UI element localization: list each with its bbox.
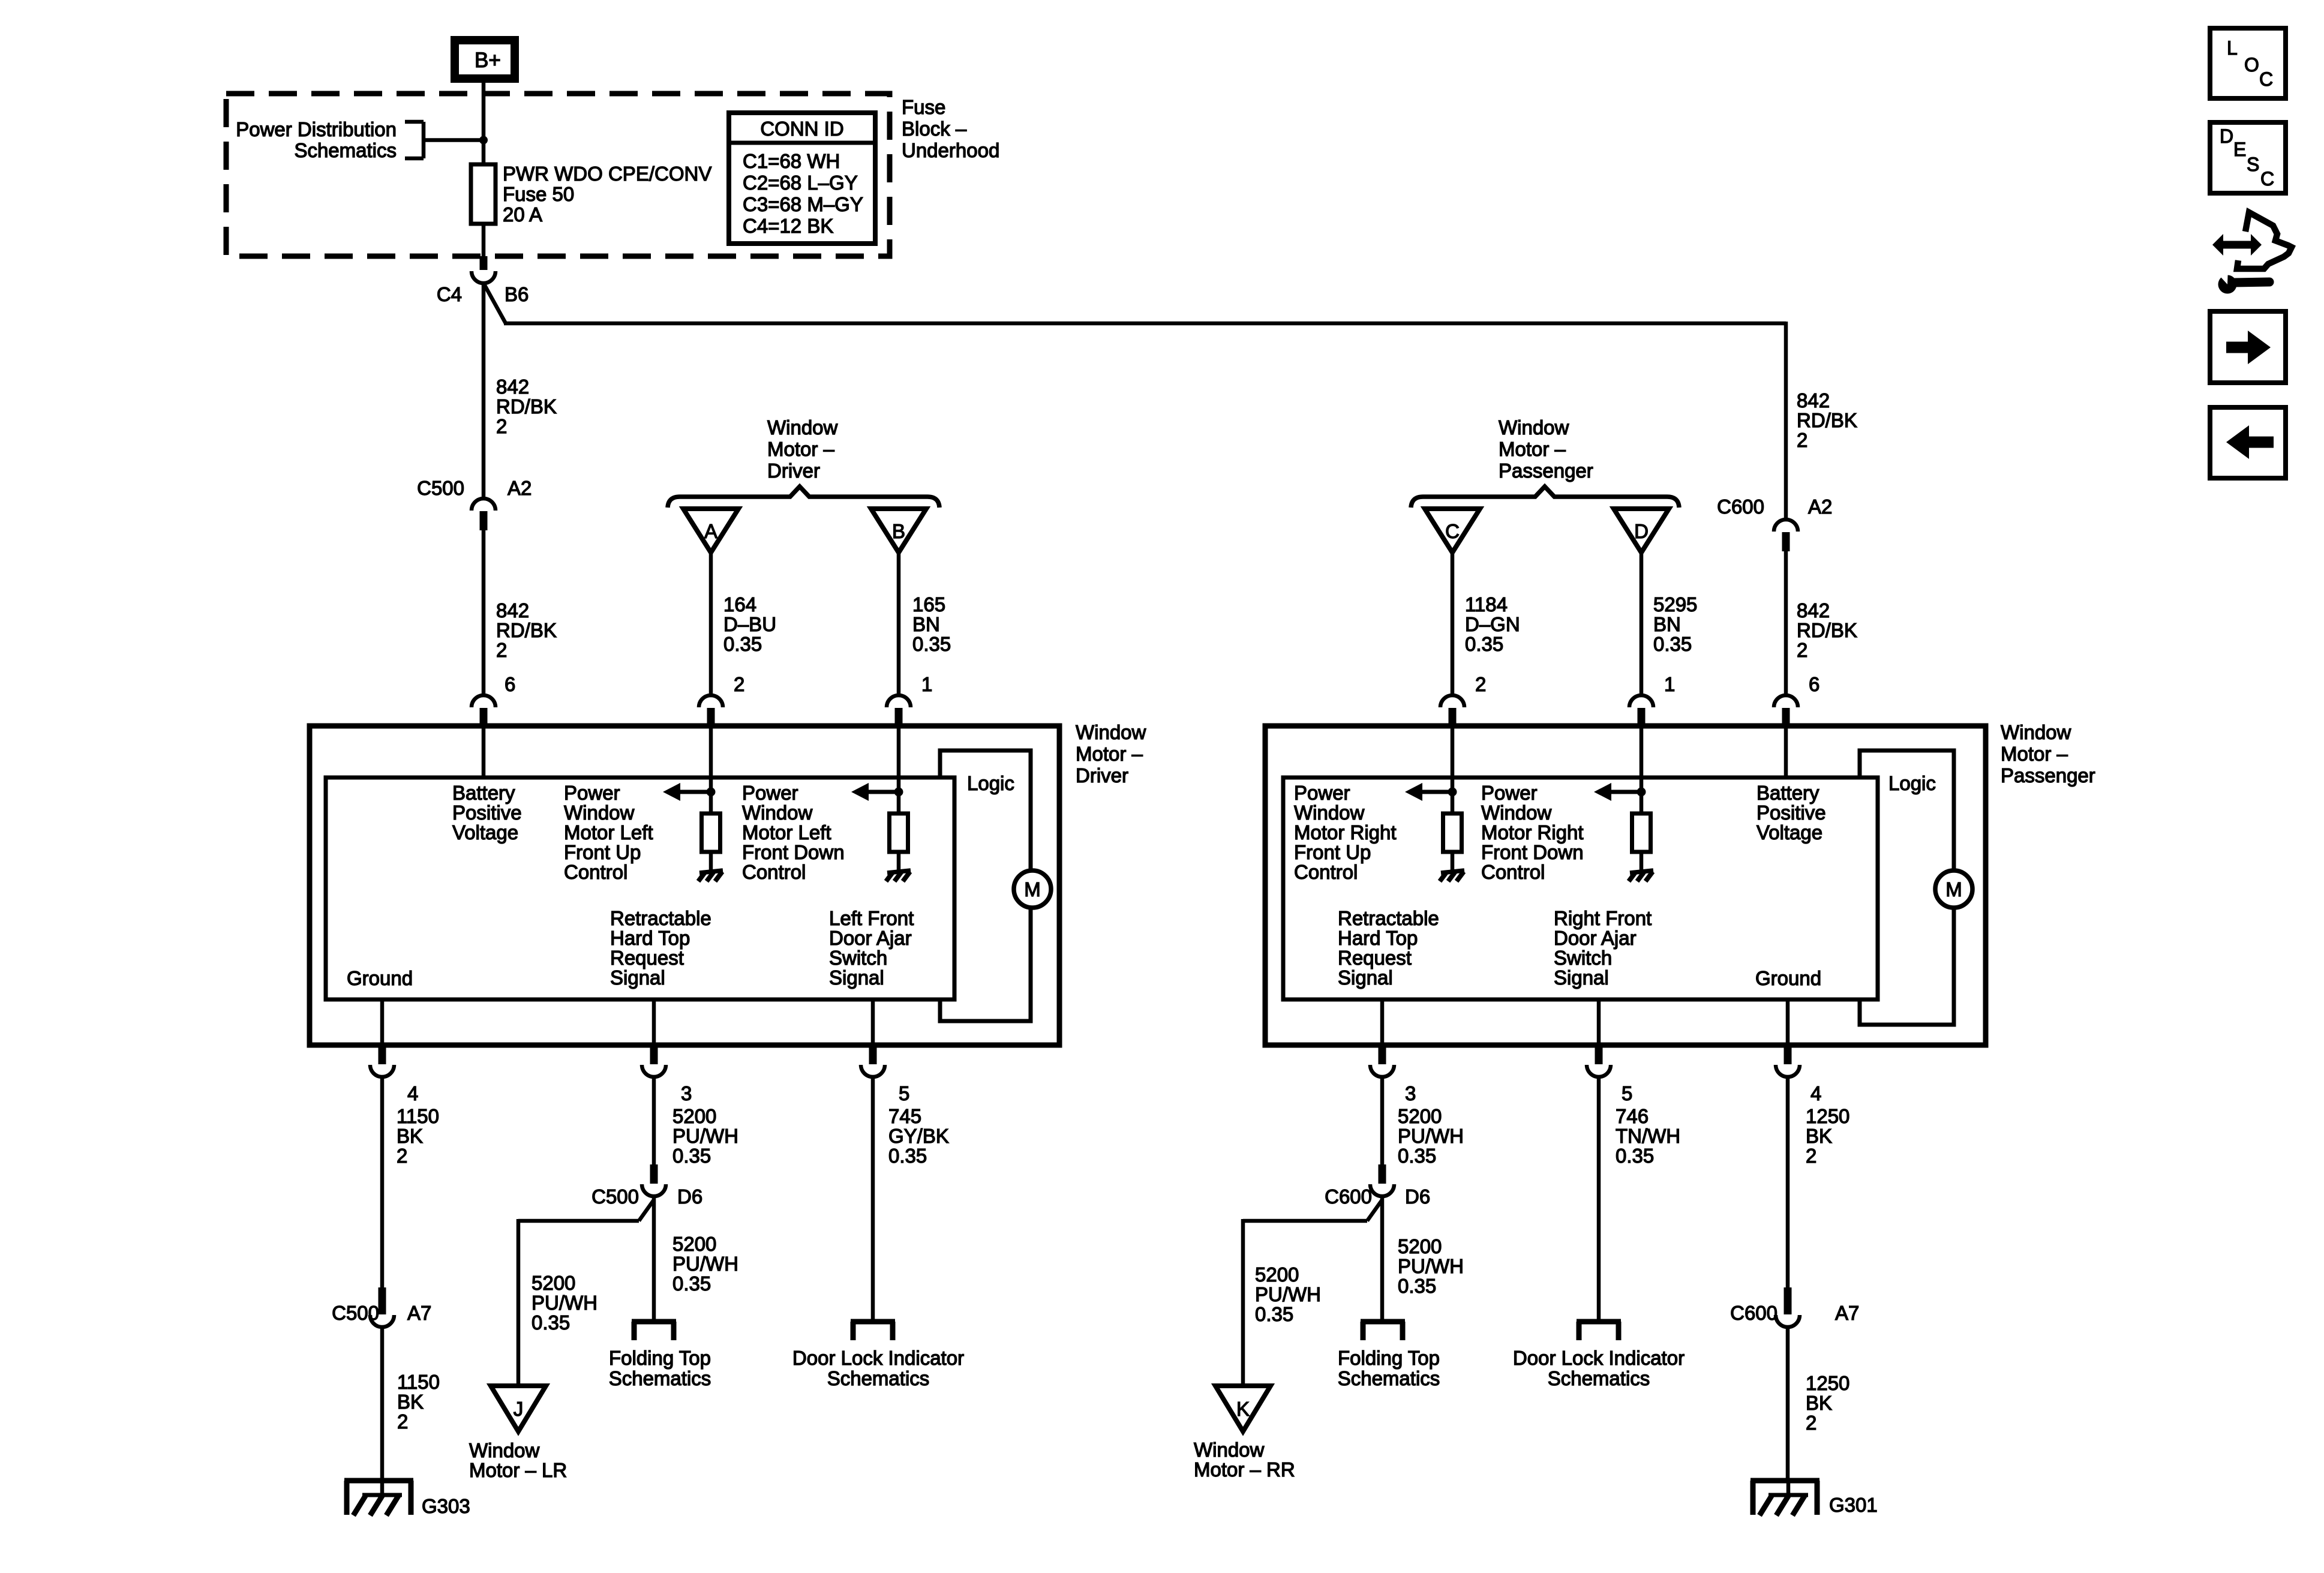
svg-text:2: 2: [1806, 1145, 1816, 1167]
power symbol B+: [455, 40, 515, 79]
svg-text:Motor Left: Motor Left: [564, 821, 653, 843]
svg-text:842: 842: [1797, 389, 1830, 412]
svg-text:M: M: [1024, 878, 1041, 900]
svg-text:Window: Window: [742, 801, 813, 824]
connector C600 pin A7: [1776, 1287, 1800, 1327]
svg-text:Passenger: Passenger: [2001, 764, 2095, 786]
wire label: 1184 D-GN 0.35: [1465, 593, 1520, 655]
label: Power Window Motor Right Front Down Control: [1481, 782, 1584, 883]
svg-text:842: 842: [496, 599, 529, 622]
svg-text:0.35: 0.35: [1255, 1303, 1293, 1325]
wire: branch from C4/B6 to passenger side: [484, 283, 1786, 521]
svg-text:5200: 5200: [1398, 1105, 1442, 1127]
label: Window Motor - Passenger (above brace): [1499, 416, 1593, 482]
svg-text:5295: 5295: [1653, 593, 1697, 616]
label: A7: [407, 1302, 431, 1324]
svg-text:Motor –: Motor –: [2001, 743, 2068, 765]
svg-text:C600: C600: [1717, 496, 1764, 518]
svg-text:0.35: 0.35: [1398, 1145, 1436, 1167]
inner function box (driver): [326, 778, 954, 999]
icon: LOC box: [2210, 28, 2286, 98]
svg-text:5200: 5200: [672, 1233, 716, 1255]
svg-text:Control: Control: [1294, 861, 1358, 883]
wire: triangle C to pin 2: [1451, 553, 1455, 696]
svg-text:2: 2: [1475, 673, 1486, 695]
label: C600 (D6): [1325, 1185, 1372, 1208]
brace for window motor driver: [668, 487, 939, 508]
label: C500 (A2): [417, 477, 464, 499]
svg-text:0.35: 0.35: [672, 1145, 711, 1167]
connector C500 pin A2: [472, 499, 496, 530]
label: Ground (driver): [347, 967, 413, 989]
svg-text:PU/WH: PU/WH: [672, 1253, 738, 1275]
arrow: up control (passenger): [1405, 783, 1452, 801]
svg-text:PU/WH: PU/WH: [1398, 1255, 1464, 1277]
svg-text:D–BU: D–BU: [723, 613, 776, 635]
svg-text:Front Up: Front Up: [1294, 841, 1371, 863]
label: A2: [508, 477, 532, 499]
svg-text:BK: BK: [1806, 1392, 1832, 1414]
ground G301: [1750, 1481, 1819, 1515]
svg-text:2: 2: [1797, 429, 1807, 451]
wire: pin 3 to C600 D6: [1380, 1076, 1385, 1164]
svg-text:Fuse: Fuse: [902, 96, 945, 118]
svg-text:C: C: [2260, 168, 2274, 190]
svg-text:Switch: Switch: [829, 947, 887, 969]
pin number 5 (passenger): [1622, 1082, 1632, 1104]
module pin 4 connector (driver bottom): [370, 1045, 394, 1077]
pin number 4 (passenger): [1810, 1082, 1821, 1104]
svg-text:Window: Window: [1499, 416, 1569, 439]
svg-text:0.35: 0.35: [888, 1145, 927, 1167]
pin number 1: [921, 673, 932, 695]
wire label: 746 TN/WH 0.35: [1616, 1105, 1680, 1167]
label: Door Lock Indicator Schematics (left): [792, 1347, 964, 1389]
wire label: 5200 PU/WH 0.35 (pin3 driver): [672, 1105, 738, 1167]
svg-text:842: 842: [1797, 599, 1830, 622]
wire: C600 A2 to module pin 6: [1784, 551, 1788, 696]
svg-text:Signal: Signal: [610, 966, 665, 989]
wire: resistor to chassis ground: [709, 852, 713, 871]
svg-text:D6: D6: [1405, 1185, 1430, 1208]
arrow: down control (driver): [851, 783, 899, 801]
label: C4: [437, 283, 462, 305]
svg-text:Motor –: Motor –: [1499, 438, 1566, 460]
svg-text:Signal: Signal: [1338, 966, 1393, 989]
pin number 1 (passenger): [1664, 673, 1675, 695]
svg-text:D6: D6: [677, 1185, 702, 1208]
chassis ground (driver down): [886, 870, 911, 881]
svg-text:J: J: [514, 1398, 524, 1420]
wire label: 164 D-BU 0.35: [723, 593, 776, 655]
svg-text:RD/BK: RD/BK: [496, 395, 557, 418]
svg-text:Retractable: Retractable: [1338, 907, 1439, 929]
junction dot pin2: [707, 788, 716, 797]
svg-text:Front Down: Front Down: [742, 841, 845, 863]
svg-text:Request: Request: [610, 947, 684, 969]
wire label: 5200 PU/WH 0.35 (branch right): [1255, 1263, 1321, 1325]
wire label: 842 RD/BK 2 (upper left): [496, 376, 557, 437]
svg-text:RD/BK: RD/BK: [1797, 409, 1857, 431]
svg-text:1150: 1150: [397, 1105, 439, 1127]
svg-text:Signal: Signal: [829, 966, 884, 989]
svg-text:Folding Top: Folding Top: [1338, 1347, 1440, 1369]
svg-text:Motor – LR: Motor – LR: [469, 1459, 567, 1481]
svg-text:Window: Window: [1481, 801, 1552, 824]
wire: pin 5 to door lock indicator (right): [1597, 1076, 1601, 1322]
wire: pin 5 to door lock indicator: [871, 1076, 875, 1322]
svg-text:A2: A2: [1808, 496, 1832, 518]
label: Logic (passenger): [1888, 772, 1936, 794]
svg-text:BN: BN: [912, 613, 940, 635]
wire: triangle A to pin 2: [709, 553, 713, 696]
svg-text:Right Front: Right Front: [1554, 907, 1652, 929]
wire label: 1150 BK 2 (upper): [397, 1105, 439, 1167]
svg-text:Motor –: Motor –: [1076, 743, 1143, 765]
svg-text:0.35: 0.35: [723, 633, 762, 655]
pin number 6: [505, 673, 515, 695]
pin number 2: [734, 673, 744, 695]
connector triangle B: [871, 509, 926, 553]
wire: C500 A2 to module pin 6: [482, 530, 486, 696]
pin number 3: [681, 1082, 692, 1104]
svg-text:C4=12 BK: C4=12 BK: [743, 215, 833, 237]
connector triangle J: [491, 1386, 546, 1431]
svg-text:M: M: [1945, 878, 1962, 900]
reference bracket to Power Distribution Schematics: [405, 122, 484, 158]
connector C4 pin B6: [472, 256, 496, 283]
svg-text:A: A: [704, 520, 717, 542]
svg-text:2: 2: [496, 639, 507, 661]
svg-text:Schematics: Schematics: [1338, 1367, 1440, 1389]
wire: inner box to module pin 5 (driver bottom): [871, 999, 875, 1045]
svg-text:S: S: [2247, 154, 2259, 175]
svg-text:0.35: 0.35: [912, 633, 951, 655]
module pin 6 connector (passenger top): [1774, 695, 1798, 728]
svg-text:2: 2: [397, 1145, 407, 1167]
svg-text:A7: A7: [1835, 1302, 1859, 1324]
resistor: up control (passenger): [1443, 813, 1462, 852]
svg-text:Door Ajar: Door Ajar: [1554, 927, 1637, 949]
wire: triangle D to pin 1: [1640, 553, 1644, 696]
label: G301: [1829, 1494, 1878, 1516]
svg-text:Hard Top: Hard Top: [610, 927, 690, 949]
svg-text:Motor Right: Motor Right: [1294, 821, 1397, 843]
module pin 1 connector (driver top): [887, 695, 911, 728]
wire: resistor to chassis ground (passenger up): [1451, 852, 1455, 871]
svg-text:CONN ID: CONN ID: [760, 118, 843, 140]
wire label: 1250 BK 2 (upper): [1806, 1105, 1849, 1167]
svg-text:C600: C600: [1325, 1185, 1372, 1208]
chassis ground (driver up): [698, 870, 723, 881]
svg-text:D–GN: D–GN: [1465, 613, 1520, 635]
svg-text:4: 4: [407, 1082, 418, 1104]
svg-text:Motor –: Motor –: [767, 438, 835, 460]
svg-text:164: 164: [723, 593, 756, 616]
wire: D6 branch to window motor RR: [1243, 1200, 1382, 1387]
pin number 4: [407, 1082, 418, 1104]
svg-text:1150: 1150: [397, 1371, 440, 1393]
fuse 50 PWR WDO CPE/CONV 20 A: [471, 164, 496, 224]
svg-text:Driver: Driver: [767, 460, 820, 482]
svg-text:2: 2: [1797, 639, 1807, 661]
wire label: 5200 PU/WH 0.35 (pin3 passenger): [1398, 1105, 1464, 1167]
svg-text:1250: 1250: [1806, 1372, 1849, 1394]
wire: D6 branch to window motor LR: [518, 1200, 654, 1387]
svg-text:C500: C500: [332, 1302, 379, 1324]
junction dot pin2 (passenger): [1448, 788, 1457, 797]
svg-text:Passenger: Passenger: [1499, 460, 1593, 482]
label: Folding Top Schematics (left): [609, 1347, 711, 1389]
svg-text:5200: 5200: [1398, 1235, 1442, 1257]
module pin 4 connector (passenger bottom): [1776, 1045, 1800, 1077]
svg-text:5: 5: [1622, 1082, 1632, 1104]
svg-text:Signal: Signal: [1554, 966, 1609, 989]
svg-text:Retractable: Retractable: [610, 907, 711, 929]
label: Power Window Motor Right Front Up Control: [1294, 782, 1397, 883]
wire: B+ down to fuse: [482, 83, 486, 167]
window motor driver module box: [310, 726, 1059, 1045]
wire label: 1250 BK 2 (lower): [1806, 1372, 1849, 1434]
svg-text:Battery: Battery: [452, 782, 515, 804]
svg-text:Power: Power: [742, 782, 798, 804]
module pin 2 connector (driver top): [699, 695, 723, 728]
svg-text:Door Ajar: Door Ajar: [829, 927, 912, 949]
svg-text:Positive: Positive: [1756, 801, 1826, 824]
off-page bracket: folding top (left): [632, 1322, 676, 1340]
svg-text:A7: A7: [407, 1302, 431, 1324]
svg-text:Driver: Driver: [1076, 764, 1128, 786]
wire: resistor to chassis ground 2: [897, 852, 901, 871]
svg-text:E: E: [2233, 139, 2246, 160]
svg-text:Switch: Switch: [1554, 947, 1612, 969]
label: C500 (A7): [332, 1302, 379, 1324]
label: C500 (D6): [591, 1185, 639, 1208]
svg-text:BN: BN: [1653, 613, 1681, 635]
icon: forward arrow box: [2210, 311, 2286, 383]
connector C500 pin D6: [642, 1164, 666, 1196]
svg-text:0.35: 0.35: [1398, 1275, 1436, 1297]
svg-text:842: 842: [496, 376, 529, 398]
junction dot pin1 (passenger): [1637, 788, 1646, 797]
wire label: 5295 BN 0.35: [1653, 593, 1697, 655]
svg-text:20 A: 20 A: [503, 203, 542, 226]
window motor passenger module box: [1265, 726, 1986, 1045]
svg-text:Schematics: Schematics: [294, 139, 397, 161]
svg-text:1: 1: [921, 673, 932, 695]
label: Window Motor - Passenger (module title): [2001, 721, 2095, 786]
svg-text:745: 745: [888, 1105, 921, 1127]
svg-text:GY/BK: GY/BK: [888, 1125, 949, 1147]
motor M circle (driver): [1014, 870, 1051, 908]
svg-text:Fuse 50: Fuse 50: [503, 183, 574, 205]
svg-text:C3=68 M–GY: C3=68 M–GY: [743, 193, 863, 215]
label: Power Window Motor Left Front Down Control: [742, 782, 845, 883]
svg-text:BK: BK: [397, 1125, 423, 1147]
junction dot pin1: [894, 788, 903, 797]
module pin 2 connector (passenger top): [1440, 695, 1464, 728]
logic box (driver): [940, 751, 1031, 1021]
wire label: 5200 PU/WH 0.35 (below D6 right): [1398, 1235, 1464, 1297]
off-page bracket: folding top (right): [1361, 1322, 1405, 1340]
label: Fuse Block - Underhood: [902, 96, 999, 161]
svg-text:Window: Window: [1076, 721, 1146, 743]
svg-text:Motor Right: Motor Right: [1481, 821, 1584, 843]
fuse block underhood dashed box: [226, 94, 890, 256]
wire: D6 to folding top schematics: [652, 1196, 656, 1322]
svg-text:3: 3: [681, 1082, 692, 1104]
motor M circle (passenger): [1935, 870, 1972, 908]
label: B6: [505, 283, 529, 305]
connector C500 pin A7: [370, 1287, 394, 1327]
label: D6: [677, 1185, 702, 1208]
label: Left Front Door Ajar Switch Signal: [829, 907, 914, 989]
label: Logic (driver): [967, 772, 1014, 794]
logic box (passenger): [1860, 751, 1954, 1025]
svg-text:L: L: [2227, 37, 2238, 59]
svg-text:Control: Control: [564, 861, 627, 883]
svg-text:Power Distribution: Power Distribution: [236, 118, 397, 140]
module pin 1 connector (passenger top): [1629, 695, 1653, 728]
svg-text:4: 4: [1810, 1082, 1821, 1104]
svg-text:2: 2: [496, 415, 507, 437]
svg-text:PU/WH: PU/WH: [672, 1125, 738, 1147]
svg-text:Schematics: Schematics: [827, 1367, 930, 1389]
connector C600 pin D6: [1370, 1164, 1394, 1196]
svg-text:165: 165: [912, 593, 945, 616]
wire: D6 to folding top schematics (right): [1380, 1196, 1385, 1322]
connector triangle C: [1425, 509, 1480, 553]
wire: C4/B6 down to C500 A2: [482, 283, 486, 500]
label: fuse name: [503, 163, 711, 226]
icon: DESC box: [2210, 122, 2286, 193]
off-page bracket: door lock (right): [1577, 1322, 1621, 1340]
svg-text:C1=68 WH: C1=68 WH: [743, 150, 840, 172]
svg-text:Front Down: Front Down: [1481, 841, 1584, 863]
icon: back arrow box: [2210, 407, 2286, 478]
connector triangle D: [1614, 509, 1669, 553]
wire: resistor to chassis ground (passenger down): [1640, 852, 1644, 871]
svg-text:PWR WDO CPE/CONV: PWR WDO CPE/CONV: [503, 163, 711, 185]
svg-text:K: K: [1236, 1398, 1250, 1420]
svg-text:C2=68 L–GY: C2=68 L–GY: [743, 172, 858, 194]
svg-text:D: D: [2220, 125, 2233, 147]
wire: pin 2 to up-control resistor: [709, 728, 713, 815]
wire: pin 4 to C500 A7: [380, 1076, 385, 1287]
svg-text:Motor Left: Motor Left: [742, 821, 831, 843]
svg-text:Hard Top: Hard Top: [1338, 927, 1418, 949]
label: Retractable Hard Top Request Signal (passenger): [1338, 907, 1439, 989]
svg-text:Door Lock Indicator: Door Lock Indicator: [1513, 1347, 1685, 1369]
wire: battery positive inside passenger module: [1784, 728, 1788, 779]
svg-text:5200: 5200: [532, 1272, 575, 1294]
svg-text:RD/BK: RD/BK: [1797, 619, 1857, 641]
connector C600 pin A2: [1774, 520, 1798, 551]
svg-text:PU/WH: PU/WH: [1255, 1283, 1321, 1305]
wire label: 5200 PU/WH 0.35 (branch left): [532, 1272, 597, 1334]
svg-text:0.35: 0.35: [672, 1272, 711, 1295]
svg-text:Folding Top: Folding Top: [609, 1347, 711, 1369]
svg-text:TN/WH: TN/WH: [1616, 1125, 1680, 1147]
svg-text:2: 2: [397, 1410, 408, 1433]
svg-text:G301: G301: [1829, 1494, 1878, 1516]
svg-text:Ground: Ground: [1755, 967, 1821, 989]
svg-text:Schematics: Schematics: [1548, 1367, 1650, 1389]
wire: inner box to module pin 3 (driver bottom): [652, 999, 656, 1045]
svg-text:Ground: Ground: [347, 967, 413, 989]
resistor: up control (driver): [702, 813, 720, 852]
svg-text:Power: Power: [564, 782, 620, 804]
junction dot at fuse feed: [479, 136, 488, 145]
resistor: down control (passenger): [1632, 813, 1651, 852]
svg-text:Window: Window: [2001, 721, 2071, 743]
label: Door Lock Indicator Schematics (right): [1513, 1347, 1685, 1389]
label: C600 (A7): [1730, 1302, 1777, 1324]
svg-text:Block –: Block –: [902, 118, 967, 140]
svg-text:Voltage: Voltage: [452, 821, 518, 843]
svg-text:G303: G303: [422, 1495, 470, 1517]
wire label: 842 RD/BK 2 (lower left): [496, 599, 557, 661]
svg-text:BK: BK: [397, 1391, 424, 1413]
label: Battery Positive Voltage (passenger): [1756, 782, 1826, 843]
svg-text:Window: Window: [767, 416, 838, 439]
pin number 3 (passenger): [1405, 1082, 1416, 1104]
wire: fuse to connector C4: [482, 224, 486, 257]
svg-text:Window: Window: [1294, 801, 1365, 824]
wire label: 1150 BK 2 (lower): [397, 1371, 440, 1433]
wire: pin 1 to down-control resistor (passenger): [1640, 728, 1644, 815]
wire label: 842 RD/BK 2 (lower right): [1797, 599, 1857, 661]
svg-text:0.35: 0.35: [532, 1311, 570, 1334]
svg-text:Logic: Logic: [1888, 772, 1936, 794]
module pin 3 connector (passenger bottom): [1370, 1045, 1394, 1077]
svg-text:Schematics: Schematics: [609, 1367, 711, 1389]
module pin 3 connector (driver bottom): [642, 1045, 666, 1077]
svg-text:Voltage: Voltage: [1756, 821, 1822, 843]
label: Window Motor - LR: [469, 1439, 567, 1481]
label: Power Distribution Schematics: [236, 118, 397, 161]
brace for window motor passenger: [1411, 487, 1679, 508]
svg-text:RD/BK: RD/BK: [496, 619, 557, 641]
svg-text:D: D: [1634, 520, 1649, 542]
svg-text:5200: 5200: [672, 1105, 716, 1127]
svg-text:PU/WH: PU/WH: [1398, 1125, 1464, 1147]
label: Ground (passenger): [1755, 967, 1821, 989]
svg-text:Control: Control: [1481, 861, 1545, 883]
wire: pin 2 to up-control resistor (passenger): [1451, 728, 1455, 815]
svg-text:5: 5: [899, 1082, 909, 1104]
svg-text:1250: 1250: [1806, 1105, 1849, 1127]
icon: jump double arrow with wrench: [2212, 212, 2292, 294]
svg-text:2: 2: [1806, 1412, 1816, 1434]
module pin 5 connector (passenger bottom): [1587, 1045, 1611, 1077]
label: Power Window Motor Left Front Up Control: [564, 782, 653, 883]
chassis ground (passenger up): [1440, 870, 1464, 881]
label: Window Motor - Driver (module title): [1076, 721, 1146, 786]
wire: pin 1 to down-control resistor: [897, 728, 901, 815]
connector triangle A: [683, 509, 738, 553]
label: Retractable Hard Top Request Signal (driver): [610, 907, 711, 989]
label: G303: [422, 1495, 470, 1517]
svg-text:Window: Window: [469, 1439, 540, 1461]
module pin 5 connector (driver bottom): [861, 1045, 885, 1077]
wire: inner box to module pin 3 (passenger bottom): [1380, 999, 1385, 1045]
pin number 6 (passenger): [1809, 673, 1819, 695]
wire: triangle B to pin 1: [897, 553, 901, 696]
svg-text:PU/WH: PU/WH: [532, 1292, 597, 1314]
svg-text:Window: Window: [564, 801, 635, 824]
svg-text:0.35: 0.35: [1653, 633, 1692, 655]
